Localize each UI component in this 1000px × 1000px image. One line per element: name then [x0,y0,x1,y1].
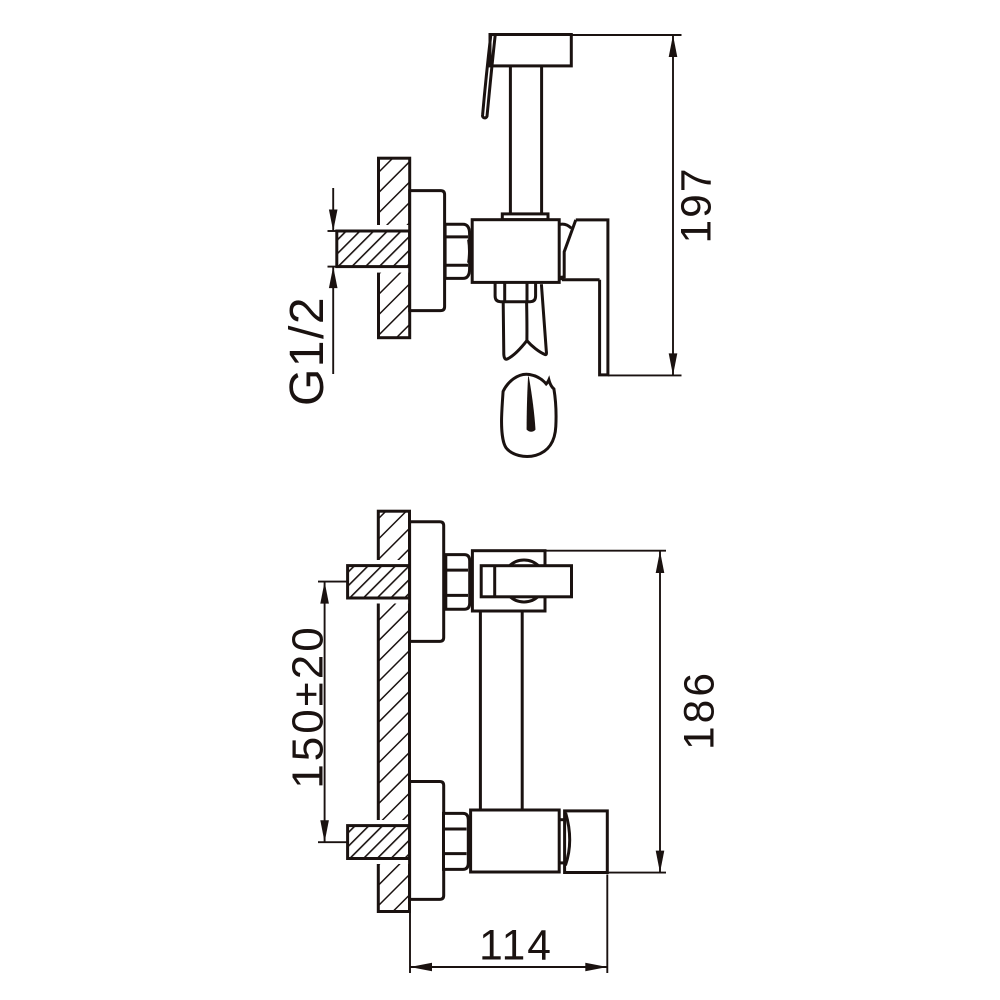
dark core of drop [527,376,536,432]
lower supply pipe (hatched) [348,826,410,859]
lower mounting hex nut [444,813,469,869]
sprayer trigger lever [482,35,495,118]
pipe connection circle [503,560,545,602]
upper mounting hex nut [446,555,470,610]
mounting hex nut [445,224,470,278]
wall bar (hatched) [378,511,409,911]
G1/2 dimension [328,230,341,232]
dimension 197 [672,35,674,375]
aerator hex nut under body [495,282,535,301]
end cap dome arc [565,813,569,866]
sprayer handle pipe [509,66,512,214]
water stream [503,284,546,359]
pipe base flange [502,214,548,220]
svg-text:186: 186 [677,670,724,750]
svg-text:G1/2: G1/2 [281,296,334,406]
cartridge dome arc [559,224,571,228]
riser pipe [479,611,482,810]
wall plate (hatched section, side view) [379,158,410,338]
connector block through circle [481,566,571,597]
supply pipe through wall (hatched) [337,231,410,267]
sprayer head [490,35,571,66]
svg-text:150±20: 150±20 [284,624,333,789]
white gap where supply pipe crosses wall [377,225,412,273]
washer between nut and body [469,234,472,268]
end cap [565,811,608,873]
lower escutcheon flange [410,782,444,900]
lower body (front) [471,810,560,872]
escutcheon flange [410,191,445,311]
upper escutcheon flange [410,522,444,642]
water drop [502,374,556,456]
white gaps where supply pipes cross wall [376,560,411,604]
svg-text:197: 197 [674,167,721,244]
neck between body and end cap [559,818,564,821]
svg-text:114: 114 [479,923,553,970]
valve body [472,220,559,283]
handle lever (L-shape) [576,220,608,375]
dimension 186 [545,550,666,552]
dimension 150±20 [318,581,349,583]
top extension line to dimension 197 [571,34,682,36]
dimension 114 [409,903,411,974]
upper supply pipe (hatched) [348,566,410,598]
upper elbow body [472,551,545,611]
